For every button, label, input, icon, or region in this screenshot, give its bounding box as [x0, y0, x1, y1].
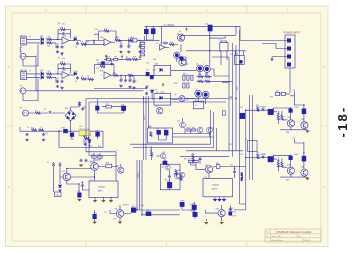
capacitor C52 — [81, 107, 84, 111]
svg-text:R5: R5 — [57, 78, 59, 80]
svg-text:CR81: CR81 — [192, 204, 196, 206]
svg-text:R52: R52 — [31, 127, 34, 129]
resistor R83 — [180, 176, 182, 181]
off-page box — [248, 141, 258, 152]
diode CR72 — [58, 185, 61, 188]
resistor R18 — [132, 58, 137, 60]
wire — [27, 39, 41, 43]
svg-text:R32: R32 — [170, 42, 173, 44]
wire mid verticals — [116, 96, 149, 181]
transistor Q11 — [180, 122, 186, 128]
capacitor C24 — [133, 80, 136, 84]
wire — [173, 118, 214, 137]
svg-text:R8: R8 — [87, 76, 89, 78]
resistor R72 — [98, 156, 102, 158]
diode CR33 — [160, 96, 163, 99]
resistor R3 — [60, 28, 65, 30]
wire top rail — [145, 26, 241, 44]
transistor Q73 — [118, 167, 124, 173]
pin mark 3 — [222, 199, 225, 202]
svg-text:R92: R92 — [229, 144, 232, 146]
svg-text:C4: C4 — [75, 47, 77, 49]
fuse X1 — [49, 111, 52, 114]
svg-text:R47: R47 — [277, 161, 280, 163]
svg-text:CR51: CR51 — [61, 128, 65, 130]
svg-text:C72: C72 — [81, 182, 84, 184]
bridge diode a — [68, 112, 70, 115]
wire — [174, 35, 181, 62]
wire — [146, 34, 153, 40]
svg-text:CR33: CR33 — [160, 92, 164, 94]
resistor R38 — [192, 129, 196, 131]
transistor Q42 — [301, 122, 308, 129]
svg-text:F1: F1 — [44, 109, 46, 111]
svg-text:3.3: 3.3 — [35, 110, 37, 112]
capacitor C94 — [222, 111, 225, 115]
capacitor C7 — [62, 67, 65, 70]
wire — [121, 58, 141, 60]
capacitor C5 — [56, 80, 59, 84]
diode CR31 — [160, 68, 163, 71]
lamp DS1 dot — [239, 60, 242, 63]
wire feeds to right blocks — [246, 95, 268, 180]
transistor Q41 — [287, 120, 294, 127]
diode CR45 — [289, 156, 293, 160]
resistor R16 — [114, 58, 118, 60]
diode CR6 — [74, 72, 77, 75]
wire — [182, 202, 218, 219]
svg-text:Q62: Q62 — [161, 166, 164, 168]
resistor R44 — [277, 115, 279, 120]
svg-text:1: 1 — [36, 89, 37, 91]
wire — [20, 44, 38, 66]
svg-text:Q82: Q82 — [177, 170, 180, 172]
diode CR3 — [74, 38, 77, 41]
capacitor C76 — [85, 159, 88, 163]
capacitor C34 — [145, 92, 148, 96]
misc labels bottom — [90, 154, 237, 218]
svg-text:R65: R65 — [149, 126, 152, 128]
transistor Q10 — [156, 108, 162, 114]
svg-text:Q11: Q11 — [177, 121, 180, 123]
ground — [205, 222, 208, 225]
bridge rectifier BR1 — [65, 110, 76, 121]
wire — [69, 40, 74, 42]
pin 4 — [287, 63, 290, 66]
capacitor C23 — [129, 79, 132, 83]
wire — [118, 75, 128, 78]
wire — [191, 162, 210, 178]
svg-text:U8: U8 — [162, 163, 164, 165]
svg-text:3: 3 — [101, 75, 102, 77]
capacitor C64 — [168, 175, 171, 179]
resistor R4 — [81, 43, 86, 45]
resistor R23 — [128, 74, 133, 76]
svg-text:1: 1 — [254, 111, 255, 113]
ground — [128, 86, 131, 89]
svg-text:F2: F2 — [47, 162, 49, 164]
wire — [95, 164, 121, 181]
transistor Q4 — [179, 59, 186, 66]
diode CR32 — [151, 90, 154, 93]
wire — [94, 153, 100, 163]
wire — [77, 41, 95, 45]
svg-text:DS1BAFF Multiroom Amplifier: DS1BAFF Multiroom Amplifier — [277, 230, 312, 234]
svg-text:AMP L: AMP L — [98, 190, 103, 193]
resistor R15 — [107, 58, 111, 60]
svg-text:Q83: Q83 — [216, 209, 219, 211]
ground — [132, 87, 135, 90]
resistor R36 — [205, 80, 210, 82]
svg-text:Doc: Doc — [298, 236, 301, 238]
svg-text:AMP R: AMP R — [212, 188, 218, 191]
title block — [265, 229, 321, 242]
wire — [152, 148, 165, 161]
svg-text:L1: L1 — [40, 127, 42, 129]
value labels stage2 — [100, 28, 133, 74]
svg-text:Q61: Q61 — [149, 150, 152, 152]
svg-text:C37: C37 — [146, 70, 149, 72]
svg-text:SPKR: SPKR — [231, 212, 236, 214]
svg-text:-24: -24 — [292, 138, 295, 140]
svg-text:R18: R18 — [133, 57, 136, 59]
diode CR42 — [289, 109, 293, 113]
svg-text:J1: J1 — [29, 36, 31, 38]
capacitor C53 — [26, 133, 29, 137]
svg-text:Q74: Q74 — [114, 208, 117, 210]
resistor R42 — [281, 92, 285, 95]
resistor R22 — [113, 74, 118, 76]
svg-text:C36: C36 — [96, 60, 99, 62]
svg-text:R90: R90 — [270, 97, 273, 99]
wire — [280, 91, 295, 96]
svg-text:A: A — [57, 193, 59, 197]
wire — [130, 75, 147, 79]
svg-text:U5: U5 — [155, 90, 157, 92]
diode CR1 — [41, 38, 44, 41]
svg-text:C1: C1 — [56, 51, 58, 53]
svg-text:Q72: Q72 — [89, 161, 92, 163]
wire — [110, 205, 120, 221]
resistor R81 — [188, 160, 192, 162]
wire feedback loop A — [94, 31, 116, 40]
wire — [186, 41, 246, 65]
svg-text:U4: U4 — [155, 64, 157, 66]
svg-text:C83: C83 — [229, 210, 232, 212]
svg-text:R11: R11 — [95, 29, 98, 31]
svg-text:R71: R71 — [97, 154, 100, 156]
wire — [137, 36, 160, 45]
svg-text:K1: K1 — [195, 100, 197, 102]
svg-text:C8: C8 — [75, 81, 77, 83]
svg-text:Q41: Q41 — [287, 117, 290, 119]
svg-text:U3: U3 — [156, 43, 158, 45]
transistor Q3 (pair) — [180, 57, 184, 61]
relay U6 box — [194, 101, 204, 109]
wire bus joins — [181, 35, 236, 81]
ground — [138, 51, 141, 54]
ground — [84, 143, 87, 146]
voltage regulator VR3 (highlighted) — [79, 130, 91, 136]
capacitor C71 (polarized) — [78, 193, 82, 197]
svg-text:C58: C58 — [121, 104, 124, 106]
svg-text:C65: C65 — [167, 181, 170, 183]
svg-text:File: ds1b.sch: File: ds1b.sch — [272, 240, 283, 242]
svg-text:C62: C62 — [164, 129, 167, 131]
resistor R82 — [194, 160, 198, 162]
capacitor C32 (polarized) — [151, 29, 155, 34]
wire — [120, 40, 129, 44]
transistor Q61 — [160, 153, 165, 158]
diode CR83 — [180, 202, 184, 206]
diode CR81 — [192, 205, 196, 209]
transistor Q43 — [287, 167, 294, 174]
svg-text:Q13: Q13 — [211, 128, 214, 130]
svg-text:CR1: CR1 — [40, 36, 43, 38]
resistor R45 — [281, 115, 283, 120]
wire stage link — [86, 41, 104, 45]
svg-text:R41: R41 — [276, 91, 279, 93]
svg-text:C91: C91 — [240, 107, 243, 109]
transistor Q2 (pair) — [174, 52, 180, 58]
wire jack B row — [36, 89, 146, 91]
transistor Q74 — [116, 210, 124, 218]
capacitor C74 (polarized) — [146, 212, 151, 216]
capacitor C22 — [124, 79, 127, 83]
svg-text:+24: +24 — [292, 90, 295, 92]
wire — [94, 210, 96, 221]
driver U8 box — [160, 164, 180, 190]
diode CR5 — [41, 76, 44, 79]
svg-text:C81: C81 — [233, 169, 236, 171]
svg-text:Q71: Q71 — [62, 171, 65, 173]
resistor R46 — [257, 154, 259, 159]
labels right blocks — [287, 90, 304, 169]
svg-text:DS1: DS1 — [230, 54, 233, 56]
svg-text:R83: R83 — [179, 174, 182, 176]
svg-text:MUTE_L: MUTE_L — [138, 171, 140, 178]
svg-text:Q4: Q4 — [184, 60, 186, 62]
svg-text:C11: C11 — [120, 45, 123, 47]
wire — [97, 99, 123, 113]
svg-text:P2: P2 — [20, 85, 22, 87]
resistor R7 — [60, 63, 65, 65]
svg-text:C57: C57 — [96, 104, 99, 106]
wire — [86, 78, 94, 81]
svg-text:U10: U10 — [204, 177, 207, 179]
svg-text:R85: R85 — [216, 163, 219, 165]
wire — [69, 74, 74, 76]
svg-text:K2: K2 — [220, 40, 222, 42]
svg-text:Q7: Q7 — [195, 89, 197, 91]
svg-text:R12: R12 — [116, 37, 119, 39]
fuse X3 — [59, 164, 62, 167]
capacitor C42 — [262, 155, 265, 159]
svg-text:R84: R84 — [191, 155, 194, 157]
ground — [25, 139, 28, 142]
transistor Q8 (dual) — [202, 91, 209, 98]
capacitor C54 — [42, 133, 45, 137]
ground — [60, 52, 63, 55]
capacitor C84 — [199, 158, 202, 162]
svg-text:B: B — [323, 65, 325, 69]
svg-text:C2: C2 — [61, 55, 63, 57]
capacitor C3 — [62, 32, 65, 35]
svg-text:RV1: RV1 — [131, 37, 134, 39]
transistor Q83 — [218, 210, 225, 217]
svg-text:Q9: Q9 — [186, 100, 188, 102]
svg-text:Q73: Q73 — [116, 166, 119, 168]
wire — [197, 77, 213, 82]
capacitor C51 — [78, 103, 81, 107]
svg-text:RN2: RN2 — [174, 83, 177, 85]
svg-text:C41: C41 — [262, 106, 265, 108]
resistor R35 — [198, 80, 203, 82]
svg-text:SIG_L: SIG_L — [144, 115, 146, 120]
svg-text:J2: J2 — [29, 71, 31, 73]
wire — [180, 153, 229, 164]
transistor Q13 — [207, 127, 213, 133]
wire bottom runs — [226, 167, 246, 210]
svg-text:1: 1 — [288, 37, 289, 39]
svg-text:Q81: Q81 — [205, 165, 208, 167]
svg-text:TDA2030: TDA2030 — [98, 186, 105, 189]
pin 3 — [287, 55, 290, 58]
svg-text:Q74: Q74 — [113, 219, 116, 221]
svg-text:LM7815 +15V: LM7815 +15V — [79, 129, 90, 131]
wire main rail — [20, 127, 103, 148]
ground — [119, 85, 122, 88]
svg-text:C51: C51 — [79, 126, 82, 128]
svg-text:Rev: Rev — [266, 232, 269, 234]
svg-text:Q8: Q8 — [174, 94, 176, 96]
svg-text:2: 2 — [288, 45, 289, 47]
wire — [159, 134, 167, 140]
resistor R13 — [128, 39, 133, 41]
svg-text:R81: R81 — [184, 159, 187, 161]
svg-text:R56: R56 — [98, 146, 101, 148]
diode CR2 — [41, 41, 44, 44]
svg-text:C13: C13 — [139, 45, 142, 47]
resistor R53 — [39, 129, 44, 131]
wire — [200, 69, 214, 76]
op-amp U3 — [160, 45, 165, 50]
resistor R33 — [198, 76, 203, 78]
wire feedback — [58, 64, 71, 74]
ground — [102, 200, 105, 203]
resistor R8 — [81, 78, 86, 80]
svg-text:PWR_RTN: PWR_RTN — [241, 172, 243, 181]
svg-text:CR71: CR71 — [131, 206, 135, 208]
svg-text:RN3: RN3 — [141, 41, 144, 43]
transistor Q81 — [205, 166, 212, 173]
transistor Q5 (dual) — [197, 65, 204, 72]
svg-text:C92: C92 — [240, 154, 243, 156]
capacitor C36 (polarized) — [101, 61, 105, 65]
svg-text:R34: R34 — [205, 74, 208, 76]
wire — [27, 74, 41, 78]
svg-text:B: B — [8, 65, 10, 69]
jack P1 — [20, 53, 26, 59]
svg-text:2: 2 — [254, 159, 255, 161]
pin 1 — [287, 39, 290, 42]
wire — [29, 112, 66, 114]
svg-text:CR52: CR52 — [88, 145, 92, 147]
resistor R12 — [115, 39, 120, 41]
jack P3 — [23, 110, 29, 116]
svg-text:1: 1 — [220, 51, 221, 53]
resistor R55 — [106, 105, 112, 108]
wire — [54, 162, 95, 193]
capacitor C93 (bus decoupling) — [240, 113, 245, 118]
wire — [289, 68, 291, 93]
svg-text:TDA2030: TDA2030 — [212, 184, 219, 187]
opto U5 box — [154, 94, 171, 106]
capacitor C37 (polarized) — [146, 72, 149, 76]
svg-text:C38: C38 — [153, 70, 156, 72]
svg-text:Q5: Q5 — [196, 64, 198, 66]
ground — [93, 200, 96, 203]
capacitor C21 — [120, 79, 123, 83]
svg-text:BR1: BR1 — [65, 108, 68, 110]
capacitor C11 — [120, 45, 123, 49]
svg-text:Q1: Q1 — [179, 31, 181, 33]
ground — [109, 200, 112, 203]
wire — [169, 170, 176, 190]
svg-text:Q43: Q43 — [287, 164, 290, 166]
svg-text:C12: C12 — [128, 45, 131, 47]
svg-text:R16: R16 — [114, 57, 117, 59]
svg-text:U7: U7 — [150, 147, 152, 149]
wire bus — [222, 30, 246, 210]
amplifier U10 — [203, 178, 232, 196]
svg-text:Q44: Q44 — [301, 167, 304, 169]
capacitor C58 (polarized) — [122, 106, 126, 111]
svg-text:47p: 47p — [62, 23, 65, 25]
wire — [82, 182, 111, 200]
svg-text:P3: P3 — [20, 108, 22, 110]
jack P2 — [20, 88, 26, 94]
wire — [97, 55, 109, 63]
svg-text:K1: K1 — [196, 105, 198, 107]
svg-text:18 of 32: 18 of 32 — [304, 240, 311, 242]
svg-text:3: 3 — [117, 150, 118, 152]
wire — [234, 166, 236, 178]
resistor R47 — [277, 162, 279, 167]
bridge diode d — [72, 116, 75, 119]
ground — [306, 130, 309, 133]
svg-text:R44: R44 — [277, 113, 280, 115]
amplifier U9 — [89, 181, 118, 197]
svg-text:R3: R3 — [58, 23, 60, 25]
svg-text:Q61: Q61 — [162, 152, 165, 154]
svg-text:4: 4 — [288, 61, 289, 63]
svg-text:OUT R: OUT R — [231, 216, 237, 218]
wire — [104, 59, 121, 62]
svg-text:1: 1 — [203, 64, 204, 66]
ground — [58, 189, 61, 192]
capacitor C57 (polarized) — [96, 106, 100, 110]
transistor Q63 — [175, 173, 181, 179]
connector J10 — [285, 35, 295, 68]
resistor R2 — [47, 42, 52, 44]
wire — [52, 39, 63, 48]
ground — [56, 85, 59, 88]
svg-text:MUTE: MUTE — [123, 205, 130, 207]
svg-text:R46: R46 — [256, 152, 259, 154]
resistor R1 — [47, 38, 52, 40]
resistor R5 — [47, 73, 52, 75]
